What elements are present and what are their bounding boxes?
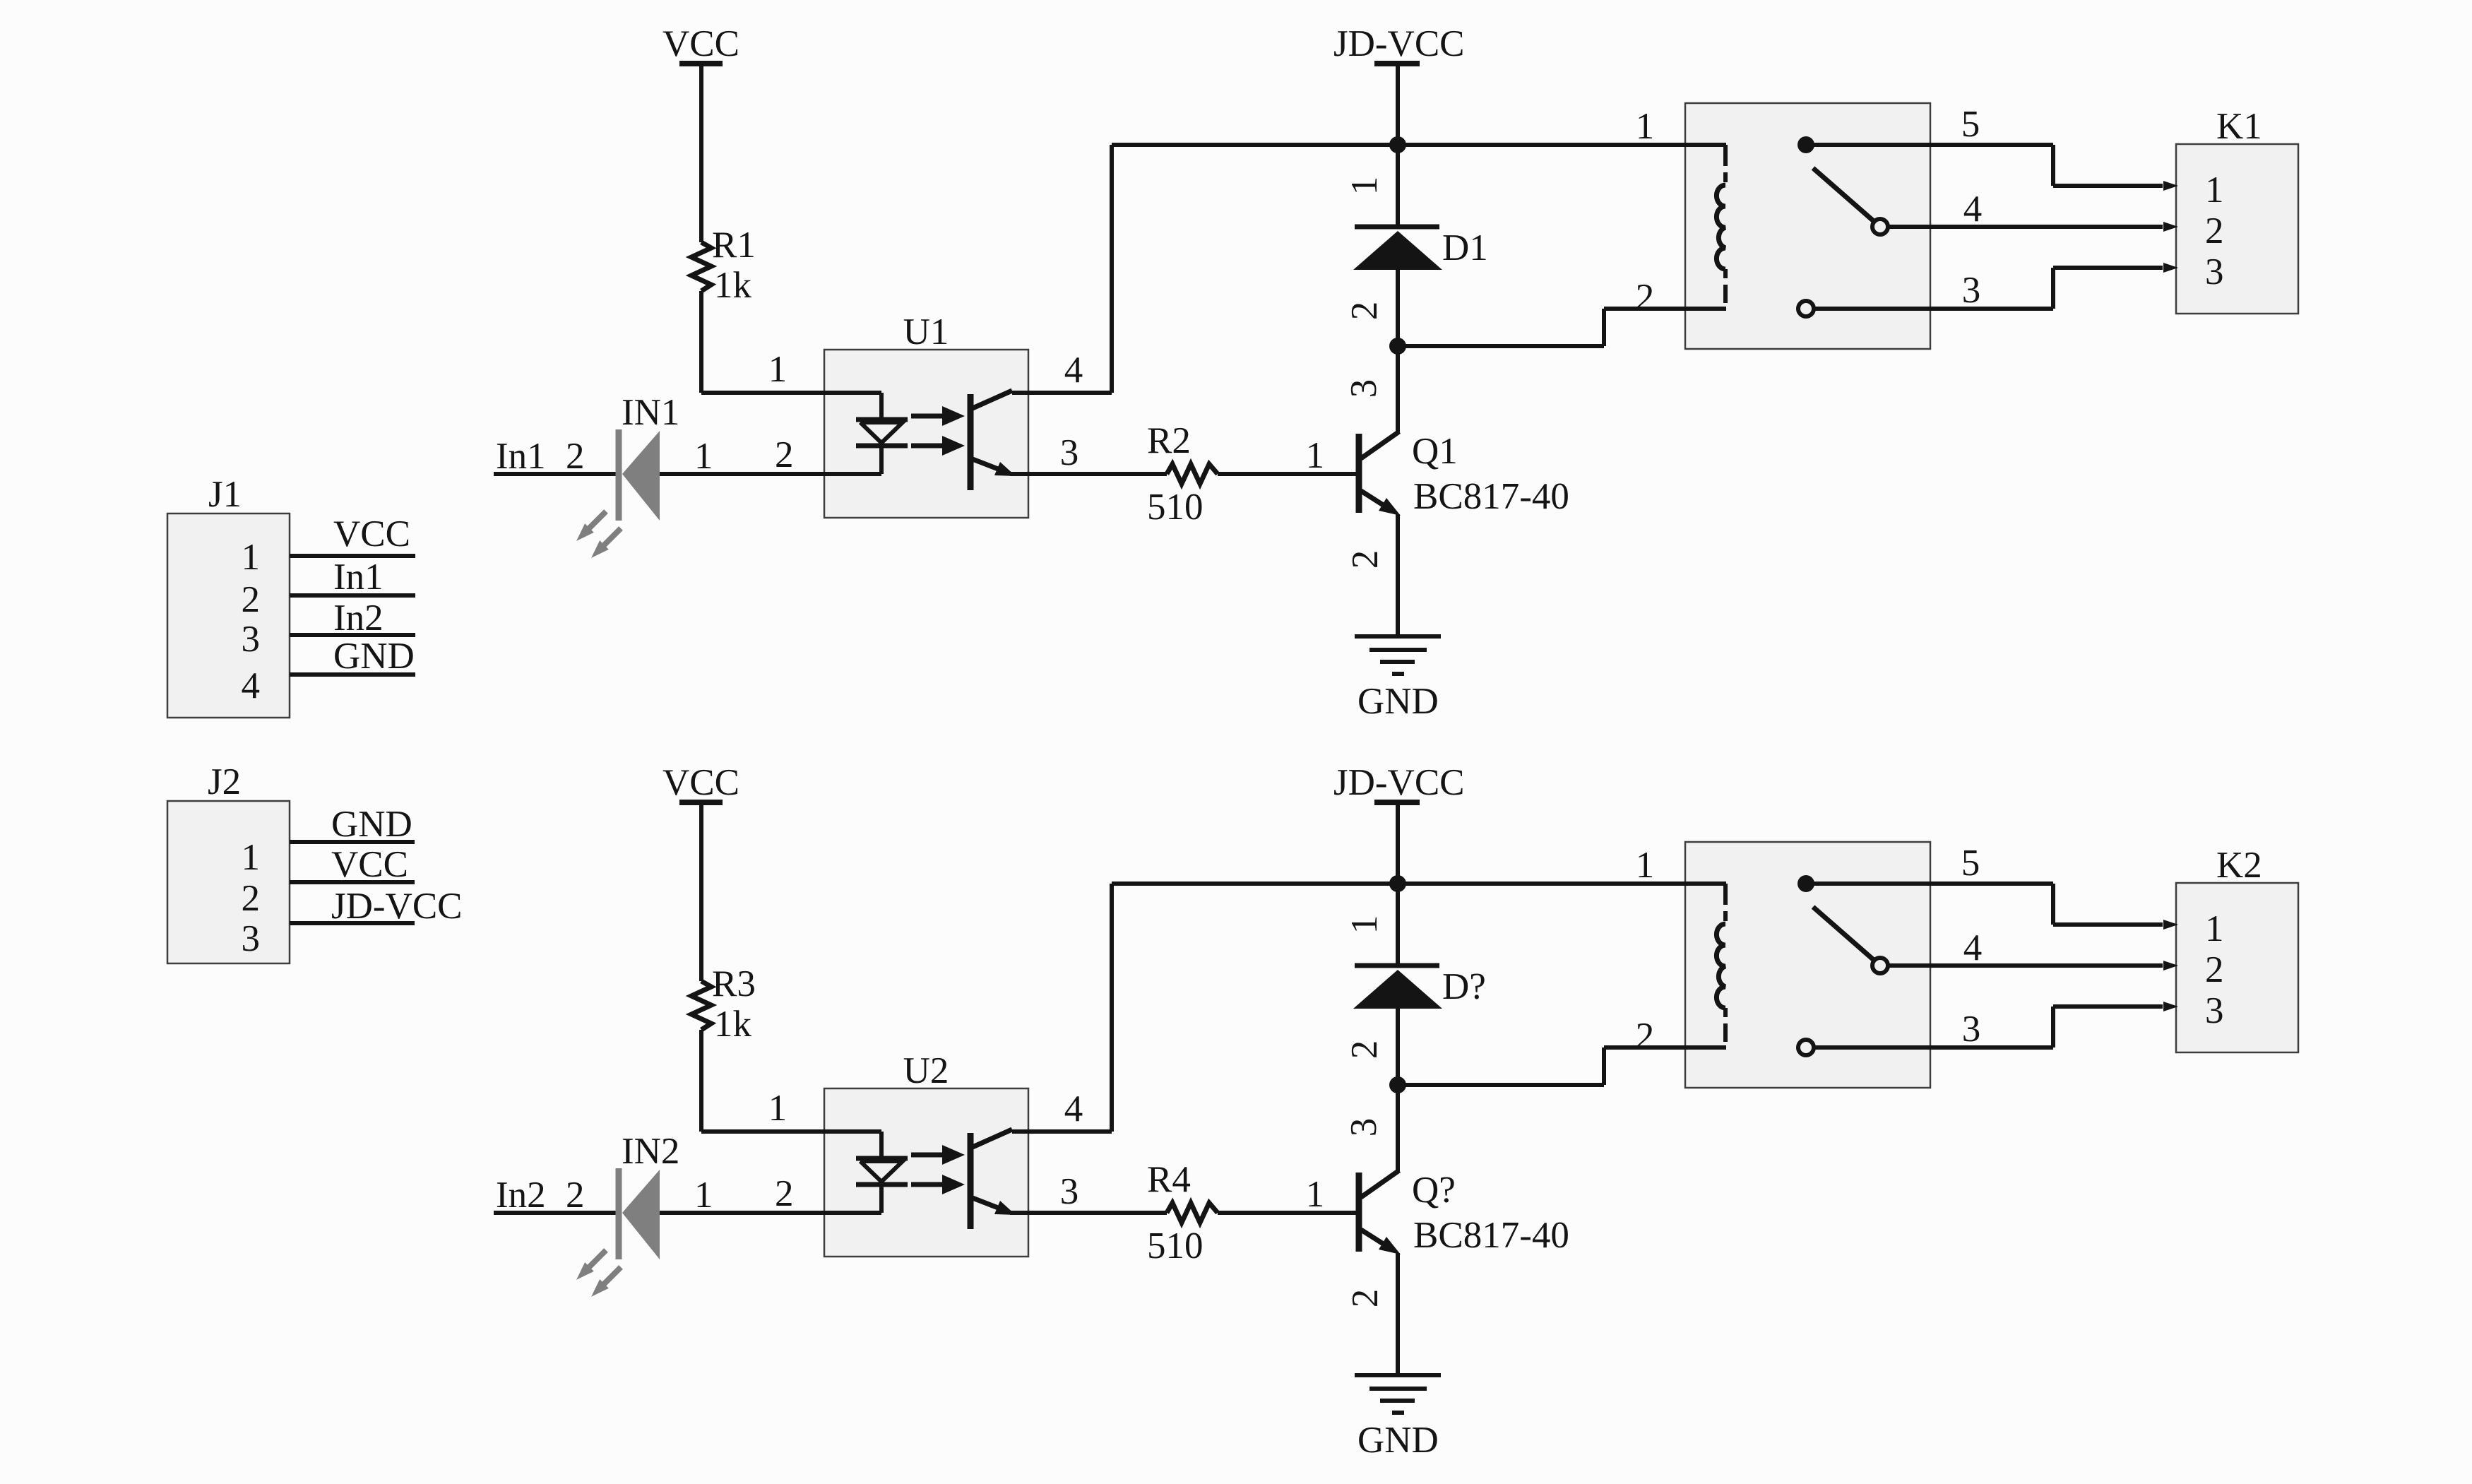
svg-text:3: 3 (1060, 1171, 1079, 1212)
svg-text:JD-VCC: JD-VCC (331, 886, 463, 927)
svg-text:1: 1 (2205, 170, 2224, 210)
svg-text:1: 1 (1306, 435, 1325, 476)
svg-text:2: 2 (242, 579, 261, 620)
svg-text:2: 2 (1345, 550, 1386, 569)
svg-text:3: 3 (2205, 990, 2224, 1031)
svg-text:2: 2 (566, 436, 585, 477)
svg-text:GND: GND (1357, 681, 1439, 722)
svg-text:D?: D? (1442, 966, 1486, 1007)
svg-text:K1: K1 (2216, 106, 2262, 147)
svg-text:IN1: IN1 (622, 392, 679, 433)
svg-text:3: 3 (1962, 270, 1981, 311)
svg-text:1: 1 (1306, 1174, 1325, 1215)
svg-text:510: 510 (1147, 1225, 1204, 1266)
svg-text:GND: GND (331, 804, 412, 845)
svg-text:2: 2 (775, 434, 794, 475)
svg-text:5: 5 (1961, 843, 1980, 884)
svg-text:VCC: VCC (333, 514, 410, 554)
svg-text:J1: J1 (208, 474, 242, 515)
svg-text:2: 2 (1636, 277, 1655, 318)
svg-text:1: 1 (768, 1088, 788, 1129)
svg-text:1: 1 (1636, 845, 1655, 886)
svg-text:1: 1 (694, 436, 713, 477)
svg-text:2: 2 (242, 878, 261, 919)
svg-text:1: 1 (694, 1175, 713, 1216)
svg-text:J2: J2 (208, 761, 241, 802)
svg-text:BC817-40: BC817-40 (1413, 476, 1569, 517)
svg-text:4: 4 (1963, 927, 1983, 968)
svg-text:K2: K2 (2216, 845, 2262, 886)
svg-text:3: 3 (2205, 251, 2224, 292)
svg-text:GND: GND (1357, 1420, 1439, 1461)
svg-text:1: 1 (768, 349, 788, 390)
svg-text:2: 2 (1344, 1040, 1385, 1059)
svg-text:2: 2 (775, 1173, 794, 1214)
svg-text:In2: In2 (496, 1175, 546, 1216)
svg-text:VCC: VCC (331, 844, 408, 885)
svg-text:R2: R2 (1147, 420, 1191, 461)
svg-text:2: 2 (2205, 210, 2224, 251)
svg-text:D1: D1 (1442, 227, 1488, 268)
svg-text:4: 4 (242, 665, 261, 706)
svg-text:3: 3 (1343, 1118, 1384, 1137)
svg-text:BC817-40: BC817-40 (1413, 1215, 1569, 1256)
svg-text:2: 2 (2205, 949, 2224, 990)
svg-text:JD-VCC: JD-VCC (1333, 762, 1465, 803)
svg-text:1: 1 (242, 837, 261, 878)
svg-text:3: 3 (1060, 432, 1079, 473)
svg-text:VCC: VCC (662, 762, 739, 803)
svg-text:1: 1 (242, 537, 261, 578)
svg-text:Q?: Q? (1412, 1170, 1456, 1211)
svg-text:IN2: IN2 (622, 1131, 679, 1172)
svg-text:VCC: VCC (662, 23, 739, 64)
svg-text:2: 2 (1345, 1289, 1386, 1308)
svg-text:3: 3 (242, 619, 261, 660)
svg-text:U2: U2 (903, 1050, 949, 1091)
svg-text:2: 2 (566, 1175, 585, 1216)
svg-text:JD-VCC: JD-VCC (1333, 23, 1465, 64)
svg-text:5: 5 (1961, 104, 1980, 145)
svg-text:1: 1 (1344, 177, 1385, 196)
svg-text:R3: R3 (712, 963, 756, 1004)
svg-text:2: 2 (1636, 1016, 1655, 1057)
svg-text:In1: In1 (333, 557, 384, 598)
svg-text:3: 3 (1343, 379, 1384, 398)
svg-text:1: 1 (1344, 915, 1385, 934)
svg-text:In1: In1 (496, 436, 546, 477)
svg-text:510: 510 (1147, 487, 1204, 528)
svg-text:4: 4 (1064, 1088, 1083, 1129)
svg-text:R1: R1 (712, 225, 756, 266)
svg-text:3: 3 (1962, 1009, 1981, 1050)
svg-text:2: 2 (1344, 302, 1385, 321)
svg-text:GND: GND (333, 636, 415, 677)
svg-text:1k: 1k (714, 265, 752, 306)
svg-text:3: 3 (242, 918, 261, 959)
svg-text:4: 4 (1963, 189, 1983, 230)
svg-text:R4: R4 (1147, 1159, 1191, 1200)
svg-text:U1: U1 (903, 311, 949, 352)
svg-text:4: 4 (1064, 350, 1083, 391)
svg-text:1: 1 (2205, 908, 2224, 949)
svg-text:Q1: Q1 (1412, 431, 1458, 472)
svg-text:In2: In2 (333, 598, 384, 639)
svg-text:1k: 1k (714, 1004, 752, 1045)
svg-text:1: 1 (1636, 106, 1655, 147)
